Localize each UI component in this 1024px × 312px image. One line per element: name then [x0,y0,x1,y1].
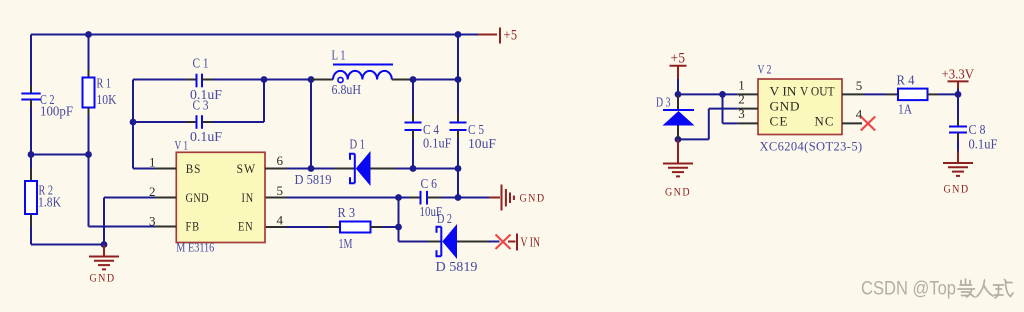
svg-text:5: 5 [277,183,284,198]
svg-text:1: 1 [149,154,156,169]
svg-text:5: 5 [856,78,863,93]
svg-text:D 5819: D 5819 [436,259,478,274]
svg-text:1A: 1A [898,102,912,117]
svg-text:V IN: V IN [521,235,541,250]
svg-text:GND: GND [944,184,970,196]
svg-text:R 3: R 3 [338,205,356,220]
svg-text:V 1: V 1 [175,138,189,152]
svg-text:IN: IN [242,191,255,205]
svg-text:C 8: C 8 [969,122,986,137]
svg-text:D 1: D 1 [350,137,366,152]
svg-text:EN: EN [238,219,254,233]
svg-text:V 2: V 2 [758,63,772,77]
svg-text:C 6: C 6 [421,176,438,191]
svg-text:+3.3V: +3.3V [942,66,975,81]
svg-text:V IN: V IN [770,85,797,99]
svg-text:BS: BS [186,162,202,176]
svg-text:0.1uF: 0.1uF [190,129,222,144]
svg-text:2: 2 [149,184,156,199]
svg-text:3: 3 [738,106,745,121]
svg-text:D 3: D 3 [656,94,671,109]
svg-text:+5: +5 [504,27,518,43]
svg-text:GND: GND [186,191,210,205]
svg-text:10uF: 10uF [468,136,496,151]
svg-text:1: 1 [738,78,745,93]
svg-text:3: 3 [149,214,156,229]
svg-text:C 5: C 5 [468,122,484,137]
svg-text:CSDN @Top: CSDN @Top [861,279,956,300]
svg-text:GND: GND [770,99,801,113]
svg-text:GND: GND [90,273,116,285]
svg-text:D 2: D 2 [437,211,452,226]
svg-text:R 1: R 1 [97,76,112,91]
svg-text:1M: 1M [339,236,353,251]
svg-text:6: 6 [277,153,284,168]
svg-text:FB: FB [186,219,201,233]
svg-text:CE: CE [770,115,789,129]
svg-text:0.1uF: 0.1uF [969,136,998,151]
svg-text:L 1: L 1 [332,48,346,63]
svg-text:1.8K: 1.8K [38,195,61,210]
svg-text:0.1uF: 0.1uF [423,135,452,150]
svg-text:GND: GND [520,193,546,205]
svg-text:C 3: C 3 [193,97,209,112]
svg-text:GND: GND [665,187,691,199]
svg-text:10K: 10K [97,92,117,107]
svg-text:V OUT: V OUT [800,85,835,99]
svg-text:D 5819: D 5819 [295,172,332,187]
svg-text:SW: SW [237,162,257,176]
svg-text:XC6204(SOT23-5): XC6204(SOT23-5) [760,138,863,153]
svg-text:6.8uH: 6.8uH [332,82,362,97]
svg-text:4: 4 [856,107,863,122]
svg-text:M E3116: M E3116 [176,241,214,255]
svg-text:+5: +5 [671,50,686,66]
svg-text:NC: NC [815,115,835,129]
svg-text:R 4: R 4 [897,72,915,87]
svg-text:4: 4 [277,212,284,227]
svg-text:C 1: C 1 [193,56,209,71]
svg-text:100pF: 100pF [40,103,73,118]
svg-text:2: 2 [738,92,745,107]
